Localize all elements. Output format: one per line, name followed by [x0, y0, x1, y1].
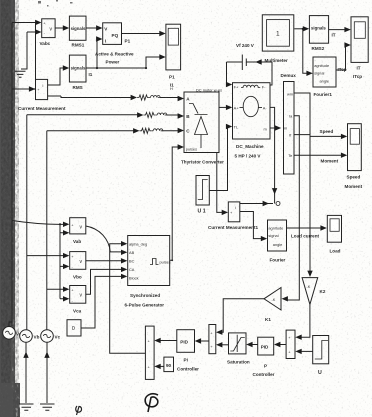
constant 0: [67, 320, 81, 336]
node Speed: demux wm to scope: [294, 93, 347, 139]
wire: neutral vertical with stubs to - inputs: [60, 224, 69, 302]
ground G1 (top left): [15, 71, 26, 77]
wire: Vab out curve to AB input: [86, 226, 128, 255]
voltage measurement Vbo: [70, 252, 86, 280]
wire: phase C to Vca +: [47, 287, 70, 292]
wire: RMS1 out to PQ V input: [86, 25, 103, 30]
wire: K1 out to sum2 input 1: [216, 299, 264, 335]
DC machine: [233, 83, 271, 159]
block PQ Active & Reactive Power: [95, 23, 134, 65]
wire: phase B to Vbo +: [27, 253, 70, 258]
top edge specks: [38, 0, 73, 7]
wire: Vabc out to RMS1: [55, 25, 69, 30]
scope Speed Moment: [345, 124, 363, 189]
block Fourier: [268, 220, 287, 263]
source U: [313, 336, 329, 377]
wire: PID P out to saturation: [246, 342, 258, 347]
wire: DC machine A- return down: [270, 107, 277, 203]
block Fourier1: [313, 57, 336, 97]
wire: PID PI out to sum1: [154, 338, 177, 343]
wire: phase B vertical from source Vb: [26, 115, 28, 330]
AC source Vb: [20, 330, 40, 343]
node Moment: demux Te to scope: [294, 153, 347, 164]
synchronized 6-pulse generator: [125, 236, 171, 308]
wire: source Vc lower to ground with up arrow: [44, 342, 49, 403]
wire: Vabc - input from ground: [21, 29, 42, 69]
wire: Current Measurement1 out with junction circle: [240, 201, 280, 206]
wire: sum2 out to PID PI controller: [195, 338, 209, 343]
wire: Vbo out to BC input: [86, 258, 128, 263]
wire: phase A to Vab + (sagging): [12, 221, 69, 228]
wire: RMS out to PQ I input and scope: [86, 36, 146, 68]
wire: Current Measurement signal to RMS: [48, 65, 70, 85]
wire: DC machine m to Demux: [270, 125, 281, 130]
block RMS1: [69, 16, 86, 47]
wire: thyristor + down to Current Measurement1: [217, 107, 228, 215]
scope IT ITcp: [351, 17, 368, 79]
voltage measurement Vab: [70, 218, 86, 244]
wire: phase B line to thyristor B with series RL: [27, 112, 184, 118]
demux: [281, 73, 297, 174]
scribble small left: [76, 406, 82, 415]
constant 90: [164, 357, 174, 372]
wire: Current Measurement1 signal to Fourier: [240, 212, 267, 242]
gain K2: [302, 278, 326, 305]
wire: sum1 out up to alpha_deg of pulse generator: [110, 241, 146, 353]
voltage measurement Vabc: [40, 19, 56, 46]
wire: sum3 out to PID P controller: [274, 342, 286, 347]
wire: constant 0 to Block input: [81, 274, 127, 328]
wire: phase A bus vertical from source Va to top: [11, 23, 13, 327]
node junction thyristor +: [212, 105, 216, 109]
node ITcp: Fourier1 out to scope IT input 2: [336, 42, 351, 72]
block RMS: [69, 55, 86, 90]
wire: source Va to bus: [9, 322, 12, 327]
step source U1: [196, 176, 209, 215]
wire: demux Ia down to gain K1: [282, 116, 300, 302]
node AC motor label: [170, 86, 222, 93]
wire: Vabc + input: [12, 20, 42, 25]
display 1 (multimeter display): [262, 15, 294, 51]
scribble bottom center: [145, 394, 158, 412]
node I1 label: [89, 72, 93, 77]
wire: F- return vertical: [270, 62, 272, 85]
wire: field supply left to F+: [226, 62, 242, 87]
wire: pulses out up to thyristor pulses input: [170, 144, 184, 260]
DC source Vf 240 V (battery): [236, 43, 288, 70]
wire: branch vertical x35.5 to current measurement level: [35, 23, 37, 90]
wire: thyristor + out to DC machine A+: [219, 105, 232, 110]
PID P controller: [253, 337, 275, 377]
wire: U1 step to DC machine TL: [209, 124, 232, 191]
thyristor converter U2: [181, 92, 224, 165]
wire: multimeter branch with left arrow to battery: [246, 59, 272, 64]
gain K1: [264, 288, 281, 323]
ground G3 under Vc: [40, 404, 55, 410]
wire: to scope P1 input 2: [146, 54, 166, 68]
wire: constant 90 to sum1: [154, 364, 164, 369]
sum1 (tall): [145, 326, 154, 379]
voltage measurement Vca: [70, 286, 86, 314]
node IT: RMS2 out to scope IT: [329, 27, 351, 38]
wire: source Vb lower to ground with up arrow: [23, 342, 28, 403]
saturation: [227, 333, 250, 365]
wire: K2 out down to sum3: [295, 304, 310, 340]
wire: phase C vertical from source Vc: [46, 131, 48, 330]
wire: U out to sum3: [295, 349, 312, 354]
wire: branch down to Fourier1: [303, 29, 313, 76]
node Load current: Fourier out to scope Load: [287, 225, 327, 238]
wire: phase C line to thyristor C with series RL: [47, 128, 184, 134]
ground G2 under Vb: [19, 404, 34, 410]
block RMS2: [309, 16, 328, 51]
PID PI controller: [177, 330, 199, 372]
sum2: [209, 325, 216, 354]
left scan band: [0, 0, 20, 417]
sum3 (near U): [286, 330, 295, 358]
node P1: PQ out to scope P1 input 1: [122, 31, 166, 44]
AC source Vc: [41, 330, 61, 343]
wire: Vca out to CA input: [86, 267, 128, 295]
wire: saturation out to sum2: [216, 342, 229, 347]
node junction dots: [34, 28, 304, 261]
wire: demux If down to gain K2: [294, 135, 313, 277]
scope P1 I1: [166, 24, 181, 87]
scope Load: [327, 215, 341, 253]
current measurement CM: [18, 79, 66, 111]
wire: multimeter signal to RMS2: [294, 26, 309, 31]
AC source Va: [3, 327, 22, 340]
wire: into Current Measurement: [12, 86, 35, 91]
current measurement1 CM1: [208, 202, 258, 230]
wire: phase A line to thyristor A with series RL: [48, 95, 184, 101]
